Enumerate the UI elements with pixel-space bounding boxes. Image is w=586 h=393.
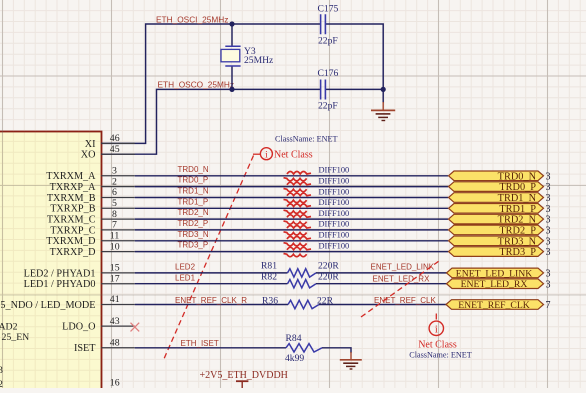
svg-text:ENET_REF_CLK: ENET_REF_CLK	[458, 300, 530, 311]
svg-text:220R: 220R	[318, 271, 339, 282]
svg-text:TXRXM_C: TXRXM_C	[47, 215, 96, 226]
svg-text:TXRXP_B: TXRXP_B	[50, 204, 95, 215]
svg-text:TRD1_N: TRD1_N	[498, 193, 537, 204]
svg-text:Net Class: Net Class	[418, 340, 457, 351]
svg-text:3: 3	[546, 279, 551, 290]
svg-text:ETH_OSCO_25MHz: ETH_OSCO_25MHz	[158, 79, 235, 89]
svg-text:TRD2_P: TRD2_P	[499, 225, 536, 236]
svg-text:DIFF100: DIFF100	[319, 187, 350, 196]
svg-text:7: 7	[112, 220, 117, 231]
pin 10 TXRXP_D	[50, 241, 135, 258]
port ENET_LED_RX	[447, 279, 544, 289]
svg-text:TRD1_P: TRD1_P	[499, 204, 536, 215]
svg-text:TRD2_N: TRD2_N	[178, 208, 209, 217]
svg-text:45: 45	[110, 144, 120, 155]
pin 8 TXRXM_C	[47, 209, 135, 226]
svg-text:22pF: 22pF	[318, 36, 338, 47]
svg-text:3: 3	[546, 247, 551, 258]
wire R84 to ground	[322, 348, 351, 353]
junction node at (383.2,89.4)	[381, 87, 386, 92]
svg-text:3: 3	[546, 236, 551, 247]
svg-text:25MHz: 25MHz	[244, 55, 273, 66]
svg-text:3: 3	[546, 171, 551, 182]
pin 5 TXRXP_B	[50, 198, 135, 215]
svg-text:C176: C176	[318, 68, 339, 79]
wire R82 to port	[316, 283, 448, 285]
resistor R82 220R	[288, 280, 317, 288]
svg-text:C175: C175	[318, 3, 339, 14]
svg-text:R81: R81	[261, 260, 277, 271]
svg-text:DIFF100: DIFF100	[319, 231, 350, 240]
svg-text:LED2 / PHYAD1: LED2 / PHYAD1	[24, 268, 96, 279]
svg-text:3: 3	[546, 182, 551, 193]
wire R81 to port	[316, 272, 448, 274]
wire crystal branch from ETH_OSCI	[231, 24, 233, 46]
svg-text:5: 5	[112, 198, 117, 209]
no-connect cross on pin 43	[131, 323, 140, 332]
svg-text:DIFF100: DIFF100	[319, 209, 350, 218]
svg-text:LED1: LED1	[175, 274, 196, 283]
svg-text:i: i	[435, 324, 438, 335]
svg-text:ISET: ISET	[74, 343, 96, 354]
svg-text:ClassName: ENET: ClassName: ENET	[275, 134, 338, 143]
differential pair directive marker	[284, 172, 312, 181]
svg-text:TXRXP_C: TXRXP_C	[50, 225, 95, 236]
svg-text:TRD3_P: TRD3_P	[499, 247, 536, 258]
capacitor C176	[321, 80, 326, 100]
svg-text:6: 6	[112, 187, 117, 198]
crystal Y3 25MHz	[221, 46, 241, 66]
svg-text:DIFF100: DIFF100	[319, 166, 350, 175]
svg-text:ENET_LED_RX: ENET_LED_RX	[373, 275, 431, 284]
svg-text:TRD3_P: TRD3_P	[178, 241, 209, 250]
svg-text:3: 3	[112, 166, 117, 177]
svg-text:TRD3_N: TRD3_N	[178, 230, 209, 239]
resistor R81 220R	[288, 269, 317, 277]
ethernet PHY IC U? (body, extends off-canvas left/bottom)	[0, 132, 102, 393]
port TRD3_P	[449, 247, 544, 257]
power port +2V5_ETH_DVDDH	[200, 370, 288, 388]
wire TRD1_P	[135, 207, 448, 209]
pin 11 TXRXM_D	[46, 231, 135, 248]
port TRD1_N	[449, 193, 544, 203]
wire ENET_REF_CLK_R (pin 41 to R36)	[135, 304, 288, 306]
svg-text:TRD1_N: TRD1_N	[178, 187, 209, 196]
differential pair directive marker	[284, 247, 312, 256]
svg-text:TXRXP_A: TXRXP_A	[50, 182, 96, 193]
svg-text:LED1 / PHYAD0: LED1 / PHYAD0	[24, 279, 96, 290]
svg-text:+2V5_ETH_DVDDH: +2V5_ETH_DVDDH	[200, 370, 288, 381]
pin 43 LDO_O	[62, 316, 135, 333]
svg-text:YAD2: YAD2	[0, 322, 18, 333]
svg-text:3: 3	[546, 193, 551, 204]
svg-text:DIFF100: DIFF100	[319, 176, 350, 185]
wire TRD0_P	[135, 186, 448, 188]
svg-text:ETH_ISET: ETH_ISET	[181, 339, 219, 348]
svg-text:TRD0_P: TRD0_P	[178, 176, 209, 185]
dashed directive line B	[361, 261, 439, 317]
pin 45 XO	[81, 144, 135, 161]
svg-text:R82: R82	[261, 271, 277, 282]
svg-text:TXRXM_D: TXRXM_D	[46, 236, 95, 247]
svg-text:3: 3	[546, 204, 551, 215]
wire ENET_LED_RX (pin 17 to R82)	[135, 283, 288, 285]
svg-text:TRD3_N: TRD3_N	[498, 236, 537, 247]
svg-text:3: 3	[546, 226, 551, 237]
svg-text:TRD0_N: TRD0_N	[498, 171, 537, 182]
svg-text:R84: R84	[286, 333, 302, 344]
pin 7 TXRXP_C	[50, 220, 135, 237]
wire crystal bottom to ETH_OSCO	[231, 67, 233, 90]
svg-text:LDO_O: LDO_O	[62, 322, 95, 333]
svg-text:2: 2	[112, 176, 117, 187]
svg-text:220R: 220R	[318, 260, 339, 271]
svg-text:3: 3	[546, 215, 551, 226]
svg-text:ENET_LED_LINK: ENET_LED_LINK	[456, 268, 532, 279]
svg-text:41: 41	[110, 294, 120, 305]
wire TRD2_P	[135, 229, 448, 231]
svg-text:DIFF100: DIFF100	[319, 220, 350, 229]
port TRD2_N	[449, 214, 544, 224]
svg-text:TRD2_N: TRD2_N	[498, 215, 537, 226]
svg-text:Net Class: Net Class	[274, 150, 313, 161]
port TRD3_N	[449, 236, 544, 246]
port TRD0_N	[449, 171, 544, 181]
port TRD2_P	[449, 225, 544, 235]
wire TRD1_N	[135, 197, 448, 199]
svg-text:TXRXM_B: TXRXM_B	[47, 193, 96, 204]
svg-text:XO: XO	[81, 150, 96, 161]
svg-text:46: 46	[110, 133, 120, 144]
pin 3 TXRXM_A	[46, 166, 135, 183]
dashed directive line A	[163, 156, 254, 362]
differential pair directive marker	[284, 237, 312, 246]
svg-text:43: 43	[110, 316, 120, 327]
wire ETH_OSCO_25MHz net (XO pin up and across to C176)	[101, 89, 320, 154]
ground symbol (oscillator)	[371, 89, 395, 120]
svg-text:ENET_LED_LINK: ENET_LED_LINK	[371, 262, 435, 271]
svg-text:i: i	[265, 150, 268, 160]
wire TRD3_N	[135, 240, 448, 242]
port ENET_LED_LINK	[447, 268, 544, 278]
wire ETH_OSCI right segment C175 to corner down to ETH_OSCO node	[326, 24, 384, 89]
svg-text:TXRXM_A: TXRXM_A	[46, 171, 96, 182]
svg-text:ETH_OSCI_25MHz: ETH_OSCI_25MHz	[156, 14, 228, 24]
wire ETH_OSCO right segment C176 to junction	[326, 88, 384, 90]
wire R36 to port	[319, 304, 446, 306]
svg-text:TRD0_N: TRD0_N	[178, 165, 209, 174]
svg-text:XI: XI	[85, 139, 96, 150]
differential pair directive marker	[284, 226, 312, 235]
resistor R84 4k99	[286, 344, 322, 352]
svg-text:TRD2_P: TRD2_P	[178, 219, 209, 228]
svg-text:TRD0_P: TRD0_P	[499, 182, 536, 193]
differential pair directive marker	[284, 204, 312, 213]
junction node at (232,24)	[229, 21, 234, 26]
pin 6 TXRXM_B	[47, 187, 135, 204]
svg-text:3: 3	[0, 365, 3, 376]
svg-text:8: 8	[112, 209, 117, 220]
svg-text:ENET_REF_CLK_R: ENET_REF_CLK_R	[175, 296, 247, 305]
wire ETH_ISET (pin 48 to R84)	[135, 347, 286, 349]
Net Class directive 2 (circle i)	[429, 314, 443, 336]
svg-text:25_NDO / LED_MODE: 25_NDO / LED_MODE	[0, 300, 96, 311]
svg-text:2: 2	[0, 379, 3, 388]
svg-text:LED2: LED2	[175, 263, 196, 272]
wire ENET_LED_LINK (pin 15 to R81)	[135, 272, 288, 274]
svg-text:ENET_LED_RX: ENET_LED_RX	[461, 279, 528, 290]
resistor R36 22R	[288, 300, 319, 308]
junction node at (232,89.4)	[229, 87, 234, 92]
wire TRD2_N	[135, 218, 448, 220]
differential pair directive marker	[284, 215, 312, 224]
port ENET_REF_CLK	[446, 300, 544, 310]
ground symbol (ISET)	[340, 352, 362, 369]
svg-text:DIFF100: DIFF100	[319, 198, 350, 207]
svg-text:48: 48	[110, 338, 120, 349]
wire TRD0_N	[135, 175, 448, 177]
svg-text:TRD1_P: TRD1_P	[178, 197, 209, 206]
pin 46 XI	[85, 133, 135, 150]
svg-text:TXRXP_D: TXRXP_D	[50, 247, 96, 258]
svg-text:DIFF100: DIFF100	[319, 241, 350, 250]
svg-text:10: 10	[110, 241, 120, 252]
svg-text:4k99: 4k99	[285, 353, 304, 364]
pin 15 LED2_PHYAD1	[24, 263, 135, 280]
port TRD1_P	[449, 204, 544, 214]
Net Class directive 1 (circle i)	[253, 148, 272, 161]
pin 48 ISET	[74, 338, 135, 355]
wire TRD3_P	[135, 251, 448, 253]
pin 41 25_NDO_LED_MODE	[0, 294, 135, 311]
differential pair directive marker	[284, 193, 312, 202]
differential pair directive marker	[284, 182, 312, 191]
pin 2 TXRXP_A	[50, 176, 135, 193]
svg-text:15: 15	[110, 263, 120, 274]
svg-text:7: 7	[546, 300, 551, 311]
capacitor C175	[321, 14, 326, 34]
svg-text:25_EN: 25_EN	[2, 332, 30, 343]
pin 17 LED1_PHYAD0	[24, 273, 135, 290]
svg-text:ClassName: ENET: ClassName: ENET	[409, 351, 472, 360]
svg-text:17: 17	[110, 273, 120, 284]
wire ETH_OSCI_25MHz net (XI pin up and across to C175)	[101, 24, 320, 143]
port TRD0_P	[449, 182, 544, 192]
svg-text:3: 3	[546, 269, 551, 280]
svg-text:11: 11	[110, 231, 120, 242]
svg-text:22pF: 22pF	[318, 101, 338, 112]
svg-text:R36: R36	[262, 295, 278, 306]
svg-text:16: 16	[110, 378, 120, 388]
